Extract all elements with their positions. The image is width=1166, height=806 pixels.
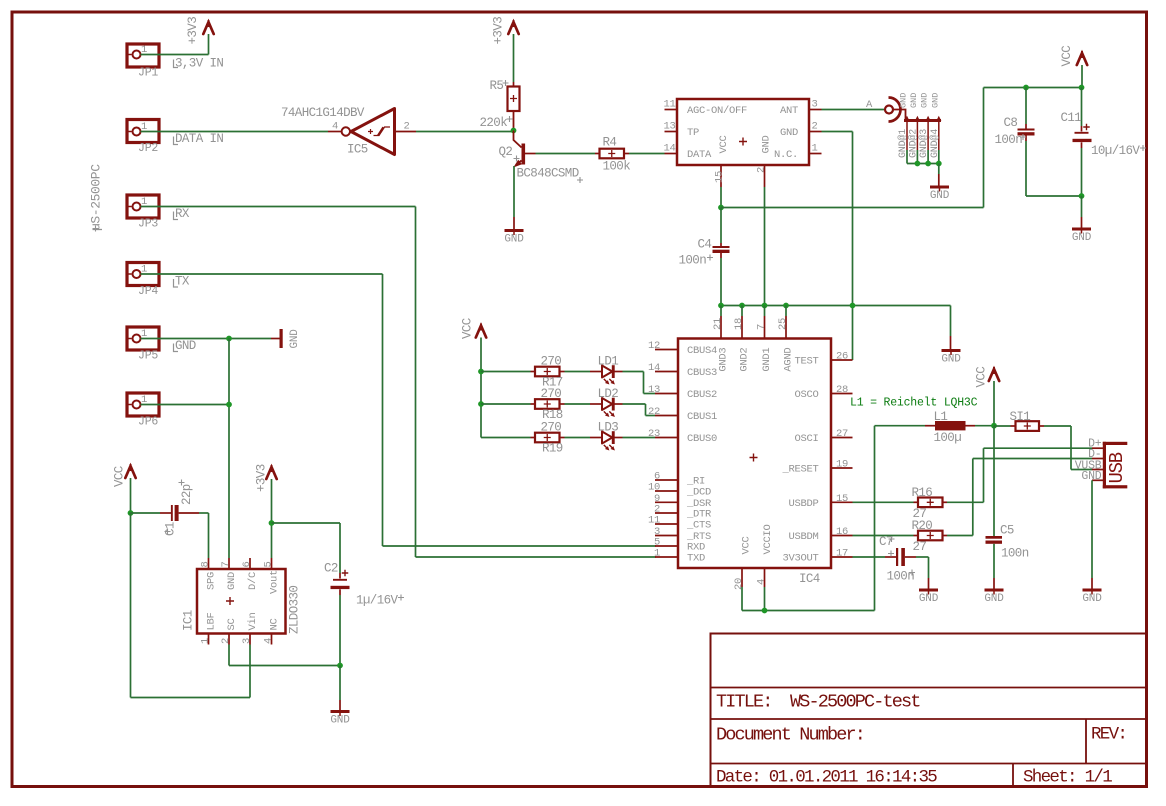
svg-text:7: 7 bbox=[756, 324, 768, 330]
svg-text:2: 2 bbox=[812, 121, 818, 133]
wire VCC LED rail bbox=[480, 338, 482, 438]
svg-text:GND: GND bbox=[909, 93, 919, 108]
wire Q2 base to R4 bbox=[536, 153, 596, 155]
svg-text:BC848CSMD: BC848CSMD bbox=[517, 167, 579, 181]
capacitor C4 100n bbox=[720, 208, 722, 244]
svg-text:R4: R4 bbox=[603, 136, 617, 150]
svg-text:TEST: TEST bbox=[794, 356, 818, 368]
power +3V3 above IC1 Vout bbox=[266, 467, 276, 479]
svg-text:JP5: JP5 bbox=[138, 350, 158, 363]
USB pin GND bbox=[1092, 479, 1103, 481]
capacitor C11 10u/16V bbox=[1081, 88, 1083, 127]
svg-text:USB: USB bbox=[1106, 452, 1128, 483]
svg-text:LD2: LD2 bbox=[598, 387, 619, 401]
svg-text:C1: C1 bbox=[164, 522, 178, 536]
IC4 pin 19 _RESET bbox=[831, 467, 853, 469]
power +3V3 at JP1 bbox=[203, 22, 213, 34]
svg-text:1µ/16V: 1µ/16V bbox=[356, 594, 399, 608]
fuse SI1 bbox=[994, 425, 1011, 427]
junction at JP6 wire bbox=[226, 402, 232, 408]
svg-text:TITLE: WS-2500PC-test: TITLE: WS-2500PC-test bbox=[716, 692, 920, 713]
wire +3V3 to Vout bbox=[271, 479, 273, 523]
svg-text:IC4: IC4 bbox=[799, 572, 820, 586]
svg-text:27: 27 bbox=[913, 540, 927, 554]
svg-text:VCC: VCC bbox=[741, 536, 753, 554]
svg-text:GND: GND bbox=[930, 93, 940, 108]
connector JP4 bbox=[127, 263, 159, 286]
ground below C5 bbox=[985, 589, 1004, 592]
svg-text:JP1: JP1 bbox=[138, 67, 158, 80]
svg-text:GND3: GND3 bbox=[717, 348, 729, 372]
junction C8 C11 bottom bbox=[1079, 193, 1085, 199]
svg-text:AGC-ON/OFF: AGC-ON/OFF bbox=[687, 105, 747, 117]
wire R18 to LD2 bbox=[565, 403, 591, 405]
svg-text:270: 270 bbox=[541, 387, 562, 401]
svg-text:3: 3 bbox=[241, 638, 253, 644]
svg-text:C5: C5 bbox=[1000, 524, 1014, 538]
wire VCC rail to R18 bbox=[481, 403, 531, 405]
svg-text:Vout: Vout bbox=[269, 570, 281, 594]
wire VCC top right down bbox=[1081, 65, 1083, 88]
svg-text:JP3: JP3 bbox=[138, 218, 158, 231]
IC1 pin 2 SC bbox=[228, 634, 230, 645]
svg-text:ANT: ANT bbox=[780, 105, 798, 117]
svg-text:3: 3 bbox=[812, 99, 818, 111]
svg-text:C4: C4 bbox=[698, 238, 712, 252]
net label 3,3V IN bbox=[174, 60, 179, 68]
svg-text:N.C.: N.C. bbox=[774, 149, 798, 161]
net label RX bbox=[174, 212, 179, 220]
svg-text:SI1: SI1 bbox=[1010, 410, 1031, 424]
svg-text:VCC: VCC bbox=[461, 318, 475, 339]
svg-text:USBDM: USBDM bbox=[788, 531, 818, 543]
junction node at Q2 collector bbox=[511, 128, 517, 134]
connector JP3 bbox=[127, 195, 159, 218]
junction module VCC node bbox=[718, 205, 724, 211]
IC1 pin 6 D/C bbox=[249, 558, 251, 569]
svg-text:LBF: LBF bbox=[206, 612, 218, 630]
net label DATA IN bbox=[174, 137, 179, 145]
wire R4 to module DATA bbox=[629, 153, 665, 155]
svg-text:100k: 100k bbox=[603, 160, 631, 174]
connector JP5 bbox=[127, 327, 159, 350]
ground symbol right of JP5 (rotated) bbox=[280, 329, 283, 348]
LED LD3 bbox=[590, 437, 602, 439]
module pin 1 N.C. bbox=[809, 153, 822, 155]
wire Vin loop to VCC bbox=[249, 645, 251, 698]
IC4 pin 4 VCCIO bbox=[764, 568, 766, 587]
svg-text:GND: GND bbox=[919, 593, 939, 605]
IC4 pin 1 TXD bbox=[655, 556, 678, 558]
title block row line above TITLE bbox=[711, 687, 1147, 689]
IC4 pin 20 VCC bbox=[741, 568, 743, 587]
junction C8 top bbox=[1023, 85, 1029, 91]
svg-text:OSCO: OSCO bbox=[794, 389, 818, 401]
module pin 2 GND bottom bbox=[764, 165, 766, 187]
svg-text:1: 1 bbox=[200, 638, 212, 644]
IC4 pin 12 CBUS4 bbox=[655, 349, 678, 351]
module pin 2 GND right bbox=[809, 131, 822, 133]
svg-text:IC5: IC5 bbox=[347, 143, 368, 157]
svg-text:Vin: Vin bbox=[247, 612, 259, 630]
transistor Q2 BC848CSMD bbox=[514, 131, 522, 148]
svg-text:+3V3: +3V3 bbox=[255, 464, 269, 492]
svg-text:A: A bbox=[866, 99, 873, 111]
svg-text:R5: R5 bbox=[490, 79, 504, 93]
junction at JP5 wire bbox=[226, 336, 232, 342]
svg-text:100n: 100n bbox=[679, 254, 707, 268]
module pin 11 AGC-ON/OFF bbox=[665, 109, 678, 111]
svg-text:GND: GND bbox=[780, 127, 798, 139]
svg-text:16: 16 bbox=[836, 526, 848, 538]
IC4 pin 11 _CTS bbox=[655, 523, 678, 525]
junction bus at AGND bbox=[783, 303, 789, 309]
svg-text:D/C: D/C bbox=[247, 572, 259, 590]
svg-text:JP6: JP6 bbox=[138, 416, 158, 429]
svg-text:DATA: DATA bbox=[687, 149, 712, 161]
svg-text:SPG: SPG bbox=[206, 572, 218, 590]
ground below C7 bbox=[919, 589, 938, 592]
capacitor C1 22p (rotated) bbox=[131, 512, 161, 514]
svg-text:NC: NC bbox=[269, 618, 281, 630]
ground below C11 bbox=[1072, 228, 1091, 231]
svg-text:220k: 220k bbox=[480, 116, 508, 130]
svg-text:LD1: LD1 bbox=[598, 355, 619, 369]
title block REV divider bbox=[1085, 719, 1087, 764]
IC4 pin 13 CBUS2 bbox=[655, 393, 678, 395]
wire bus to ground symbol bbox=[950, 306, 952, 337]
wire USBDP to R16 bbox=[853, 501, 914, 503]
svg-text:VCCIO: VCCIO bbox=[762, 524, 774, 554]
IC4 pin 10 _DCD bbox=[655, 490, 678, 492]
svg-text:GND: GND bbox=[175, 339, 196, 353]
antenna pin arrow tips bbox=[904, 116, 909, 121]
LED LD2 bbox=[590, 403, 602, 405]
pin 2 of IC5 bbox=[395, 131, 417, 133]
wire R5 to node bbox=[513, 118, 515, 131]
IC IC1 box ZLDO330 bbox=[197, 569, 286, 634]
svg-text:_CTS: _CTS bbox=[686, 520, 711, 532]
wire JP2 to IC5 input bbox=[141, 131, 329, 133]
antenna pin GND@4 bbox=[938, 121, 940, 151]
wire VCC rail to R19 bbox=[481, 437, 531, 439]
ground below USB bbox=[1083, 589, 1102, 592]
wire SI1 to USB VUSB bbox=[1044, 425, 1071, 427]
antenna pin GND@1 bbox=[906, 121, 908, 151]
svg-text:2: 2 bbox=[756, 167, 768, 173]
wire C1 to IC1 SPG bbox=[208, 513, 210, 558]
svg-text:REV:: REV: bbox=[1091, 725, 1126, 745]
USB pin VUSB bbox=[1092, 469, 1103, 471]
svg-text:C8: C8 bbox=[1004, 116, 1018, 130]
svg-text:3V3OUT: 3V3OUT bbox=[782, 553, 818, 565]
svg-text:12: 12 bbox=[648, 340, 660, 352]
svg-text:GND: GND bbox=[899, 93, 909, 108]
connector JP1 bbox=[127, 44, 159, 67]
svg-text:AGND: AGND bbox=[782, 348, 794, 372]
junction LED rail R17 bbox=[478, 369, 484, 375]
svg-text:18: 18 bbox=[733, 318, 745, 330]
junction bus at TEST riser bbox=[850, 303, 856, 309]
svg-text:IC1: IC1 bbox=[182, 610, 196, 631]
IC4 pin 9 _DSR bbox=[655, 501, 678, 503]
svg-text:R16: R16 bbox=[912, 486, 933, 500]
connector JP6 bbox=[127, 393, 159, 416]
wire +3V3 node to C2 bbox=[272, 522, 341, 524]
ground below antenna pins bbox=[930, 186, 949, 189]
resistor R20 27 bbox=[914, 535, 919, 537]
junction bus at GND1 bbox=[762, 303, 768, 309]
svg-text:CBUS2: CBUS2 bbox=[687, 389, 717, 401]
USB pin D+ bbox=[1092, 447, 1103, 449]
IC4 pin 6 _RI bbox=[655, 479, 678, 481]
svg-text:GND: GND bbox=[984, 593, 1004, 605]
svg-text:20: 20 bbox=[733, 578, 745, 590]
svg-text:10: 10 bbox=[648, 482, 660, 494]
svg-text:11: 11 bbox=[663, 99, 675, 111]
wire VCC to C1 node bbox=[130, 478, 132, 513]
wire ground bus above IC4 bbox=[721, 305, 951, 307]
svg-text:VCC: VCC bbox=[975, 367, 989, 388]
wire IC5 output to Q2 node bbox=[416, 131, 514, 133]
svg-text:JP4: JP4 bbox=[138, 285, 158, 298]
svg-text:22p: 22p bbox=[180, 484, 194, 505]
IC4 pin 15 USBDP bbox=[831, 501, 853, 503]
svg-text:6: 6 bbox=[241, 561, 253, 567]
svg-text:GND: GND bbox=[504, 234, 524, 246]
wire LD3 to IC4 CBUS0 bbox=[623, 437, 656, 439]
IC4 pin 5 RXD bbox=[655, 545, 678, 547]
IC4 pin 23 CBUS0 bbox=[655, 437, 678, 439]
wire JP5 to ground symbol bbox=[141, 338, 272, 340]
wire module ANT to antenna bbox=[822, 109, 885, 111]
pin 4 of IC5 bbox=[328, 131, 342, 133]
svg-text:TP: TP bbox=[687, 127, 699, 139]
ground below C2 bbox=[339, 666, 341, 701]
svg-text:8: 8 bbox=[200, 561, 212, 567]
power VCC above LEDs bbox=[476, 326, 486, 338]
svg-text:VCC: VCC bbox=[113, 466, 127, 487]
svg-text:3,3V IN: 3,3V IN bbox=[175, 57, 223, 71]
svg-text:4: 4 bbox=[756, 579, 768, 585]
junction LED rail R18 bbox=[478, 401, 484, 407]
module pin 13 TP bbox=[665, 131, 678, 133]
svg-text:21: 21 bbox=[712, 318, 724, 330]
svg-text:Sheet: 1/1: Sheet: 1/1 bbox=[1023, 768, 1112, 788]
junction VCC C1 node bbox=[128, 510, 134, 516]
svg-text:R20: R20 bbox=[912, 519, 933, 533]
svg-text:100µ: 100µ bbox=[934, 431, 962, 445]
svg-text:2: 2 bbox=[220, 638, 232, 644]
svg-text:_DCD: _DCD bbox=[686, 487, 711, 499]
inductor L1 100u bbox=[925, 425, 935, 427]
IC1 pin 1 LBF bbox=[208, 634, 210, 645]
IC4 pin 7 GND1 bbox=[764, 316, 766, 339]
connector JP2 bbox=[127, 120, 159, 143]
resistor R4 100k bbox=[595, 153, 600, 155]
svg-text:19: 19 bbox=[836, 459, 848, 471]
wire LD1 to IC4 bbox=[623, 371, 644, 373]
svg-text:100n: 100n bbox=[1001, 547, 1029, 561]
IC4 pin 17 3V3OUT bbox=[831, 556, 853, 558]
svg-text:TX: TX bbox=[175, 275, 190, 289]
svg-text:15: 15 bbox=[836, 493, 848, 505]
svg-text:L1 = Reichelt LQH3C: L1 = Reichelt LQH3C bbox=[850, 397, 978, 410]
svg-text:C2: C2 bbox=[324, 562, 338, 576]
svg-text:C7: C7 bbox=[879, 535, 893, 549]
svg-text:GND: GND bbox=[941, 354, 961, 366]
junction C11 top bbox=[1079, 85, 1085, 91]
svg-text:7: 7 bbox=[220, 561, 232, 567]
antenna pin GND@2 bbox=[916, 121, 918, 151]
IC4 pin 18 GND2 bbox=[741, 316, 743, 339]
IC4 pin 14 CBUS3 bbox=[655, 371, 678, 373]
junction L1 SI1 node bbox=[991, 423, 997, 429]
IC4 pin 25 AGND bbox=[785, 316, 787, 339]
svg-text:1: 1 bbox=[812, 143, 818, 155]
svg-text:27: 27 bbox=[836, 428, 848, 440]
IC1 pin 8 SPG bbox=[208, 558, 210, 569]
wire JP5/JP6 vertical to IC1 GND bbox=[228, 339, 230, 559]
svg-text:L1: L1 bbox=[934, 410, 948, 424]
IC1 pin 4 NC bbox=[271, 634, 273, 645]
wire R16 to USB D+ bbox=[947, 501, 984, 503]
net label TX bbox=[174, 279, 179, 287]
power +3V3 above R5 bbox=[508, 22, 518, 34]
power VCC top right bbox=[1077, 53, 1087, 65]
title block row line above Date row bbox=[711, 763, 1147, 765]
power VCC above SI1 node bbox=[989, 369, 999, 381]
svg-text:14: 14 bbox=[663, 143, 675, 155]
junction dots on antenna ground wire bbox=[915, 161, 921, 167]
svg-text:17: 17 bbox=[836, 548, 848, 560]
wire +3V3 to R5 bbox=[513, 34, 515, 82]
svg-text:LD3: LD3 bbox=[598, 421, 619, 435]
IC4 pin 3 _RTS bbox=[655, 535, 678, 537]
svg-text:13: 13 bbox=[663, 121, 675, 133]
svg-text:28: 28 bbox=[836, 384, 848, 396]
svg-text:Q2: Q2 bbox=[499, 145, 513, 159]
svg-text:CBUS0: CBUS0 bbox=[687, 433, 717, 445]
svg-text:4: 4 bbox=[332, 121, 338, 133]
wire JP1 to +3V3 arrow bbox=[141, 54, 209, 56]
svg-text:+3V3: +3V3 bbox=[186, 17, 200, 45]
svg-text:CBUS4: CBUS4 bbox=[687, 345, 717, 357]
svg-text:10µ/16V: 10µ/16V bbox=[1091, 144, 1140, 158]
wire IC1 SC to ground node bbox=[228, 645, 230, 666]
svg-text:VCC: VCC bbox=[1060, 46, 1074, 67]
wire LD2 to IC4 bbox=[623, 403, 646, 405]
wire R17 to LD1 bbox=[565, 371, 591, 373]
IC1 pin 3 Vin bbox=[249, 634, 251, 645]
svg-text:1: 1 bbox=[654, 548, 660, 560]
wire JP4 TX to IC4 RXD bbox=[141, 273, 383, 275]
svg-text:USBDP: USBDP bbox=[788, 498, 818, 510]
resistor R5 220k (vertical) bbox=[513, 82, 515, 87]
svg-text:5: 5 bbox=[263, 561, 275, 567]
svg-text:µS-2500PC: µS-2500PC bbox=[89, 164, 104, 231]
svg-text:GND: GND bbox=[1072, 232, 1092, 244]
svg-text:GND2: GND2 bbox=[738, 348, 750, 372]
svg-text:270: 270 bbox=[541, 355, 562, 369]
svg-text:GND1: GND1 bbox=[761, 348, 773, 372]
wire R19 to LD3 bbox=[565, 437, 591, 439]
svg-text:JP2: JP2 bbox=[138, 142, 158, 155]
svg-text:_RESET: _RESET bbox=[781, 464, 818, 476]
wire JP3 RX to IC4 TXD bbox=[141, 206, 416, 208]
svg-text:GND: GND bbox=[330, 715, 350, 727]
IC1 pin 7 GND bbox=[228, 558, 230, 569]
USB pin D- bbox=[1092, 458, 1103, 460]
wire VCC to L1 SI1 node bbox=[993, 381, 995, 426]
junction +3V3 Vout node bbox=[269, 520, 275, 526]
svg-text:74AHC1G14DBV: 74AHC1G14DBV bbox=[281, 106, 365, 120]
capacitor C5 100n bbox=[993, 426, 995, 536]
svg-text:11: 11 bbox=[648, 515, 660, 527]
svg-text:CBUS1: CBUS1 bbox=[687, 411, 717, 423]
capacitor C2 1u/16V bbox=[339, 573, 341, 579]
IC1 pin 5 Vout bbox=[271, 558, 273, 569]
junction bus at GND2 bbox=[739, 303, 745, 309]
resistor R17 270 bbox=[531, 371, 536, 373]
wire JP6 to vertical bbox=[141, 404, 230, 406]
svg-text:DATA IN: DATA IN bbox=[175, 132, 223, 146]
svg-text:100n: 100n bbox=[887, 570, 915, 584]
RF module box U1 bbox=[677, 99, 809, 165]
svg-text:4: 4 bbox=[263, 638, 275, 644]
wire module GND bottom to bus bbox=[764, 187, 766, 306]
svg-text:OSCI: OSCI bbox=[794, 433, 818, 445]
antenna ground pins bar bbox=[904, 119, 941, 122]
module pin 15 VCC bottom bbox=[720, 165, 722, 187]
svg-text:R19: R19 bbox=[542, 442, 563, 456]
module pin 3 ANT bbox=[809, 109, 822, 111]
wire USB GND to ground bbox=[1091, 480, 1093, 578]
svg-text:CBUS3: CBUS3 bbox=[687, 367, 717, 379]
IC4 pin 22 CBUS1 bbox=[655, 415, 678, 417]
capacitor C7 100n (rotated) bbox=[853, 556, 886, 558]
capacitor C8 100n bbox=[1025, 88, 1027, 125]
svg-text:RX: RX bbox=[175, 207, 190, 221]
svg-text:270: 270 bbox=[541, 421, 562, 435]
wire module GND right to bus bbox=[822, 131, 853, 133]
IC4 pin 16 USBDM bbox=[831, 535, 853, 537]
title block outline bbox=[711, 634, 1147, 787]
IC IC4 box bbox=[678, 339, 831, 569]
svg-text:GND: GND bbox=[1082, 593, 1102, 605]
junction VCC VCCIO node bbox=[762, 608, 768, 614]
svg-text:GND: GND bbox=[289, 329, 301, 349]
svg-text:Date: 01.01.2011 16:14:35: Date: 01.01.2011 16:14:35 bbox=[716, 768, 937, 788]
svg-text:GND: GND bbox=[761, 135, 773, 153]
antenna pin GND@3 bbox=[927, 121, 929, 151]
IC4 pin 2 _DTR bbox=[655, 512, 678, 514]
junction C2 ground node bbox=[337, 663, 343, 669]
junction bus at GND3 bbox=[718, 303, 724, 309]
svg-text:15: 15 bbox=[714, 171, 726, 183]
wire VCC rail to right bbox=[721, 207, 984, 209]
svg-text:GND: GND bbox=[930, 190, 950, 202]
module pin 14 DATA bbox=[665, 153, 678, 155]
wire module VCC down bbox=[720, 187, 722, 208]
wire Q2 emitter to ground bbox=[513, 166, 515, 217]
LED LD1 bbox=[590, 371, 602, 373]
svg-text:2: 2 bbox=[404, 121, 410, 133]
svg-text:C11: C11 bbox=[1061, 111, 1082, 125]
svg-text:+3V3: +3V3 bbox=[492, 17, 506, 45]
title block Sheet divider bbox=[1012, 764, 1014, 787]
ground at end of bus bbox=[942, 349, 961, 352]
